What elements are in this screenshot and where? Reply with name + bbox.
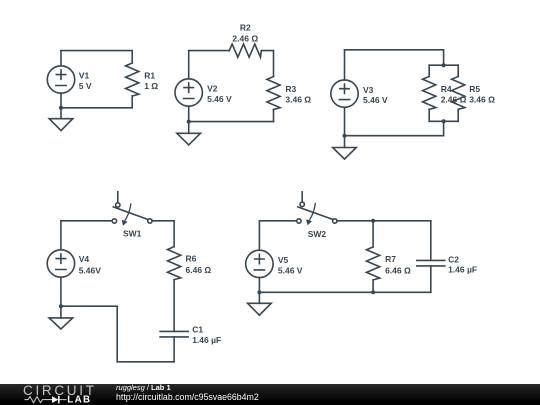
wire top-right of circuit 2 (261, 51, 273, 77)
svg-text:5 V: 5 V (79, 81, 92, 91)
ground of circuit 5 (248, 292, 272, 315)
node at R7 bottom (371, 290, 375, 294)
switch SW1 (112, 192, 152, 239)
voltage source V5 (246, 221, 303, 292)
svg-text:SW2: SW2 (308, 229, 327, 239)
node at V2 bottom (187, 120, 191, 124)
svg-text:R4: R4 (441, 84, 452, 94)
svg-text:R5: R5 (469, 84, 480, 94)
resistor R4 (423, 65, 467, 121)
CircuitLab logo (0, 383, 100, 405)
wire parallel bottom bar (429, 120, 458, 122)
ground of circuit 4 (49, 306, 73, 329)
ground of circuit 2 (177, 122, 201, 145)
svg-text:5.46 V: 5.46 V (278, 266, 303, 276)
wire top of circuit 1 (61, 50, 132, 52)
ground of circuit 3 (333, 136, 357, 159)
svg-text:1.46 µF: 1.46 µF (192, 335, 221, 345)
resistor R7 (367, 221, 412, 292)
wire bottom of circuit 1 (61, 107, 132, 109)
svg-text:3.46 Ω: 3.46 Ω (285, 95, 311, 105)
resistor R6 (168, 221, 212, 332)
node at V4 bottom (59, 304, 63, 308)
wire switch to C2 branch (337, 220, 431, 222)
capacitor C2 (417, 221, 477, 292)
node top of parallel pair (442, 63, 446, 67)
wire top-left of circuit 4 (61, 220, 112, 222)
svg-text:6.46 Ω: 6.46 Ω (385, 265, 411, 275)
svg-text:R3: R3 (285, 84, 296, 94)
resistor R1 (126, 51, 159, 108)
svg-text:C2: C2 (448, 254, 459, 264)
svg-text:R7: R7 (385, 254, 396, 264)
voltage source V4 (47, 221, 101, 306)
svg-text:SW1: SW1 (123, 229, 142, 239)
capacitor C1 (160, 325, 221, 362)
svg-text:5.46 V: 5.46 V (363, 95, 388, 105)
node at V5 bottom (257, 290, 261, 294)
svg-text:1.46 µF: 1.46 µF (448, 265, 477, 275)
voltage source V1 (47, 51, 92, 108)
ground of circuit 1 (49, 108, 73, 131)
svg-text:2.46 Ω: 2.46 Ω (232, 33, 258, 43)
resistor R2 (229, 23, 261, 58)
wire bottom of circuit 3 (345, 121, 444, 135)
footer bar (0, 384, 540, 405)
resistor R3 (267, 77, 311, 122)
footer text (116, 384, 259, 401)
svg-text:V4: V4 (79, 254, 90, 264)
wire top-left of circuit 2 (189, 50, 230, 52)
wire top of circuit 3 (345, 50, 444, 65)
resistor R5 (452, 65, 496, 121)
svg-text:V2: V2 (207, 84, 218, 94)
svg-text:5.46 V: 5.46 V (207, 94, 232, 104)
wire bottom of circuit 2 (189, 121, 274, 123)
node bottom of parallel pair (442, 119, 446, 123)
switch SW2 (297, 192, 337, 239)
node at V1 bottom (59, 106, 63, 110)
wire bottom return of circuit 4 (61, 306, 174, 362)
svg-text:R1: R1 (144, 71, 155, 81)
svg-text:C1: C1 (192, 325, 203, 335)
voltage source V3 (331, 50, 388, 136)
wire switch to R6 (152, 220, 174, 222)
svg-text:1 Ω: 1 Ω (144, 81, 158, 91)
svg-text:V5: V5 (278, 255, 289, 265)
voltage source V2 (175, 51, 232, 122)
wire parallel top bar (429, 64, 458, 66)
svg-text:3.46 Ω: 3.46 Ω (469, 95, 495, 105)
wire bottom rail of circuit 5 (259, 291, 430, 293)
svg-text:R6: R6 (186, 254, 197, 264)
svg-text:5.46V: 5.46V (79, 266, 102, 276)
svg-text:R2: R2 (240, 23, 251, 33)
svg-text:V1: V1 (79, 71, 90, 81)
node at R7 top (371, 219, 375, 223)
wire top-left of circuit 5 (259, 220, 296, 222)
svg-text:V3: V3 (363, 85, 374, 95)
svg-text:6.46 Ω: 6.46 Ω (186, 265, 212, 275)
node at V3 bottom (343, 134, 347, 138)
svg-text:LAB: LAB (67, 395, 91, 405)
